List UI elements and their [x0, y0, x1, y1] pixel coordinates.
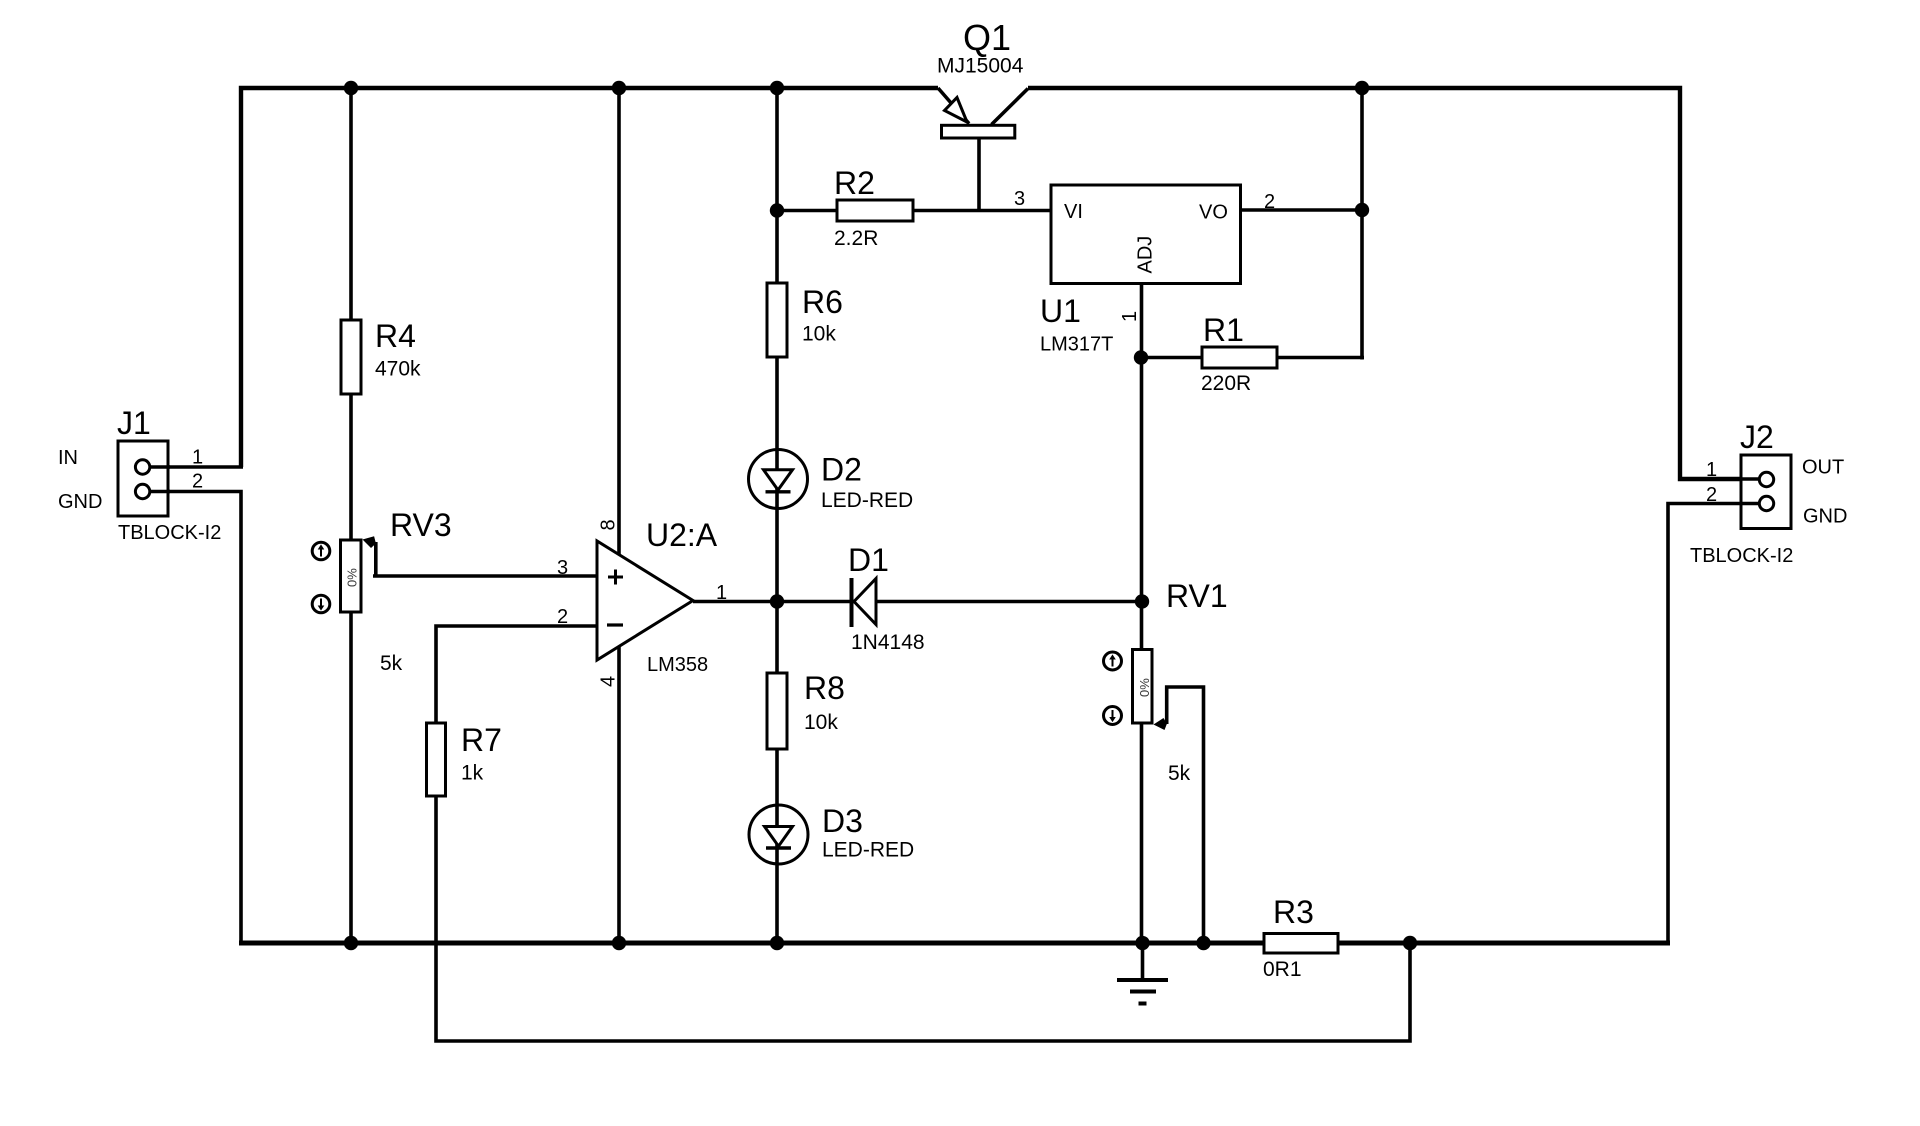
- svg-text:R2: R2: [834, 165, 875, 201]
- svg-text:1: 1: [716, 582, 727, 604]
- svg-text:D1: D1: [848, 542, 889, 578]
- svg-text:VI: VI: [1064, 201, 1083, 223]
- LED D2 circle: [749, 450, 808, 509]
- wire RV1 wiper arm: [1167, 687, 1204, 943]
- potentiometer RV1 wiper arrowhead: [1154, 718, 1167, 730]
- svg-text:GND: GND: [58, 491, 102, 513]
- svg-text:LED-RED: LED-RED: [821, 489, 913, 512]
- svg-text:D2: D2: [821, 452, 862, 488]
- svg-text:4: 4: [598, 676, 620, 687]
- svg-text:10k: 10k: [802, 323, 836, 346]
- junction bottom rail at pin4: [612, 936, 626, 950]
- svg-text:IN: IN: [58, 447, 78, 469]
- potentiometer RV3 wiper arrowhead: [363, 536, 376, 548]
- LED D2 cathode bar: [766, 490, 791, 493]
- wire J1 pin1 stub inside block: [149, 465, 170, 469]
- wire J2 pin2 stub inside block: [1740, 502, 1760, 506]
- wire op-amp output + D1 to RV1: [693, 600, 1143, 604]
- wire J1 pin1 to left rail: [150, 465, 243, 469]
- transistor Q1 emitter arrow: [945, 98, 968, 123]
- svg-text:2: 2: [1264, 191, 1275, 213]
- junction top rail at R4: [344, 81, 358, 95]
- wire op-amp pin 4 to bottom rail: [617, 645, 621, 943]
- wire J2 pin1 stub inside block: [1740, 477, 1760, 481]
- wire top rail left + left vertical to J1 pin1: [241, 88, 938, 467]
- svg-text:OUT: OUT: [1802, 457, 1844, 479]
- junction R2 left: [770, 203, 784, 217]
- potentiometer RV3 up annotation circle: [312, 542, 330, 560]
- svg-text:R1: R1: [1203, 312, 1244, 348]
- resistor R6 body: [767, 283, 787, 357]
- resistor R1 body: [1202, 347, 1277, 368]
- svg-text:TBLOCK-I2: TBLOCK-I2: [118, 522, 221, 544]
- op-amp U2:A minus input marker: [607, 623, 623, 626]
- transistor Q1 collector line: [992, 89, 1029, 125]
- svg-text:8: 8: [598, 519, 620, 530]
- svg-text:LM358: LM358: [647, 654, 708, 676]
- transistor Q1 base bar: [942, 125, 1015, 138]
- svg-text:220R: 220R: [1201, 372, 1251, 395]
- junction bottom rail at RV3: [344, 936, 358, 950]
- svg-text:R6: R6: [802, 284, 843, 320]
- wire Q1 base stub: [977, 132, 981, 212]
- svg-text:5k: 5k: [380, 652, 403, 675]
- svg-text:D3: D3: [822, 803, 863, 839]
- wire J1 pin2 stub inside block: [149, 490, 170, 494]
- connector J2 pin2 circle: [1759, 496, 1773, 510]
- wire J2 pin2 + right ground vertical: [1668, 504, 1752, 945]
- wire R1 horizontal: [1139, 356, 1364, 360]
- svg-text:470k: 470k: [375, 358, 421, 381]
- svg-text:RV1: RV1: [1166, 578, 1228, 614]
- svg-text:RV3: RV3: [390, 507, 452, 543]
- wire ground stub: [1141, 941, 1145, 979]
- svg-text:Q1: Q1: [963, 17, 1011, 58]
- wire bottom ground rail: [239, 941, 1670, 946]
- LED D3 triangle: [765, 827, 793, 847]
- junction D1 RV1: [1135, 594, 1149, 608]
- svg-text:R3: R3: [1273, 894, 1314, 930]
- connector J1 pin2 circle: [135, 484, 149, 498]
- resistor R4 body: [341, 320, 361, 394]
- svg-text:U2:A: U2:A: [646, 517, 718, 553]
- svg-text:TBLOCK-I2: TBLOCK-I2: [1690, 545, 1793, 567]
- wire RV3 wiper to op-amp pin 3: [373, 574, 599, 578]
- wire op-amp pin 8 to top rail: [617, 88, 621, 556]
- svg-text:2.2R: 2.2R: [834, 227, 878, 250]
- wire RV3 wiper arm: [374, 542, 378, 576]
- LED D2 triangle: [764, 470, 793, 490]
- connector J2 block: [1741, 455, 1791, 529]
- potentiometer RV1 body: [1133, 650, 1153, 724]
- svg-text:1: 1: [1119, 311, 1141, 322]
- wire R6 D2 R8 D3 column: [775, 88, 779, 943]
- svg-text:1k: 1k: [461, 762, 484, 785]
- svg-text:2: 2: [557, 606, 568, 628]
- wire U1 ADJ column + RV1 to ground rail: [1140, 283, 1144, 943]
- svg-text:ADJ: ADJ: [1135, 236, 1157, 274]
- resistor R2 body: [837, 200, 913, 221]
- diode D1 triangle: [854, 579, 876, 625]
- svg-text:2: 2: [1706, 484, 1717, 506]
- svg-text:GND: GND: [1803, 506, 1847, 528]
- svg-text:0R1: 0R1: [1263, 958, 1302, 981]
- svg-text:R7: R7: [461, 722, 502, 758]
- wire op-amp pin2 + R7 column + sense wire to R3 right: [436, 626, 1410, 1041]
- svg-text:J2: J2: [1740, 419, 1774, 455]
- svg-text:3: 3: [557, 557, 568, 579]
- junction top rail at R6 column: [770, 81, 784, 95]
- junction op-amp output: [770, 594, 784, 608]
- svg-text:R8: R8: [804, 670, 845, 706]
- diode D1 cathode bar: [850, 578, 854, 627]
- svg-text:1: 1: [192, 447, 203, 469]
- LED D3 circle: [749, 805, 808, 864]
- junction bottom rail at ground: [1135, 936, 1149, 950]
- svg-text:LM317T: LM317T: [1040, 334, 1113, 356]
- svg-text:R4: R4: [375, 318, 416, 354]
- wire J1 pin2 + left ground vertical: [150, 492, 241, 946]
- svg-text:J1: J1: [117, 405, 151, 441]
- op-amp U2:A plus input marker: [608, 570, 623, 585]
- LED D3 cathode bar: [766, 846, 791, 849]
- wire R4 RV3 column: [349, 88, 353, 943]
- ground symbol: [1117, 980, 1168, 1004]
- wire R2 to U1 VI: [777, 209, 1053, 213]
- connector J1 pin1 circle: [135, 460, 149, 474]
- potentiometer RV3 down annotation circle: [312, 595, 330, 613]
- svg-text:0%: 0%: [345, 568, 360, 587]
- regulator U1 box: [1051, 185, 1241, 284]
- connector J1 block: [118, 441, 168, 516]
- svg-text:MJ15004: MJ15004: [937, 55, 1024, 78]
- svg-text:3: 3: [1014, 188, 1025, 210]
- svg-text:VO: VO: [1199, 202, 1228, 224]
- junction top rail at VO vertical: [1355, 81, 1369, 95]
- resistor R8 body: [767, 673, 787, 749]
- svg-text:U1: U1: [1040, 293, 1081, 329]
- op-amp U2:A triangle: [597, 541, 693, 660]
- resistor R3 body: [1264, 934, 1338, 954]
- wire vertical VO to R1: [1360, 86, 1364, 360]
- junction bottom rail at R3 right: [1403, 936, 1417, 950]
- svg-text:1: 1: [1706, 459, 1717, 481]
- junction top rail at op-amp pin8: [612, 81, 626, 95]
- svg-text:10k: 10k: [804, 711, 838, 734]
- junction bottom rail at D3: [770, 936, 784, 950]
- svg-text:LED-RED: LED-RED: [822, 839, 914, 862]
- potentiometer RV1 up annotation circle: [1104, 652, 1122, 670]
- svg-text:5k: 5k: [1168, 762, 1191, 785]
- resistor R7 body: [427, 723, 446, 796]
- svg-text:1N4148: 1N4148: [851, 631, 925, 654]
- svg-text:2: 2: [192, 471, 203, 493]
- connector J2 pin1 circle: [1759, 472, 1773, 486]
- wire top rail right + right vertical + J2 pin1: [1028, 88, 1752, 479]
- potentiometer RV1 down annotation circle: [1104, 707, 1122, 725]
- junction bottom rail at RV1 wiper: [1196, 936, 1210, 950]
- svg-text:0%: 0%: [1137, 678, 1152, 697]
- wire U1 VO: [1240, 208, 1362, 212]
- transistor Q1 emitter line: [938, 88, 969, 124]
- junction VO wire: [1355, 203, 1369, 217]
- potentiometer RV3 body: [341, 540, 362, 612]
- junction ADJ R1: [1134, 350, 1148, 364]
